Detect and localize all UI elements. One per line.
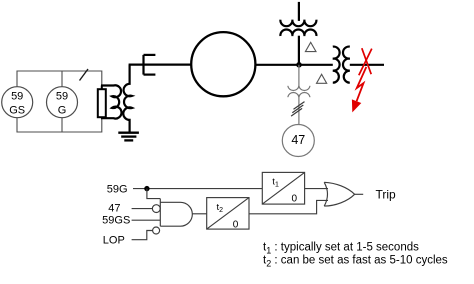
relay 59GS <box>2 87 33 118</box>
VT lead from node <box>298 65 300 89</box>
inversion bubble LOP <box>153 227 160 234</box>
machine terminal marker <box>144 55 156 75</box>
three-phase slash marks on VT lead <box>291 102 304 117</box>
ground <box>118 133 139 141</box>
wire 59G branch to AND <box>147 189 160 199</box>
wire generator terminal bus <box>255 64 332 66</box>
timer t2 box <box>207 198 249 230</box>
svg-text:0: 0 <box>292 194 298 205</box>
svg-text:G: G <box>58 104 67 116</box>
grounding transformer secondary winding <box>101 85 122 118</box>
svg-text:t2 : can be set as fast as 5-1: t2 : can be set as fast as 5-10 cycles <box>263 255 448 269</box>
fault lightning arrow <box>352 67 366 112</box>
node junction <box>296 62 302 68</box>
VT secondary lead <box>298 95 300 125</box>
generator G <box>191 32 255 96</box>
station aux transformer upper lead <box>298 2 300 21</box>
svg-text:t1 : typically set at 1-5 seco: t1 : typically set at 1-5 seconds <box>263 242 419 256</box>
resistor R (grounding resistor) <box>98 86 106 119</box>
station aux transformer LV winding <box>280 29 316 36</box>
svg-text:59: 59 <box>56 90 68 102</box>
grounding transformer primary winding <box>123 65 132 132</box>
wire t2 to OR <box>249 200 328 213</box>
svg-text:t2: t2 <box>217 202 224 214</box>
VT primary winding <box>288 86 310 91</box>
VT secondary winding <box>288 92 310 97</box>
svg-text:GS: GS <box>9 104 25 116</box>
wire riser to station transformer <box>298 36 300 65</box>
relay box <box>17 71 102 132</box>
slash on relay box top wire <box>80 69 89 81</box>
svg-text:47: 47 <box>108 203 120 215</box>
inversion bubble 47 <box>152 205 160 213</box>
wire HV side <box>350 64 384 66</box>
junction dot 59G <box>144 186 149 191</box>
svg-text:Trip: Trip <box>376 188 397 202</box>
svg-text:59G: 59G <box>107 184 128 196</box>
svg-text:LOP: LOP <box>103 234 125 246</box>
station aux transformer HV winding <box>280 20 316 27</box>
wire Trip output <box>355 193 364 195</box>
AND gate <box>160 199 192 227</box>
wire 47 input <box>132 208 153 210</box>
fault X mark <box>359 48 372 75</box>
GSU transformer HV winding <box>343 47 350 83</box>
svg-text:59: 59 <box>11 90 23 102</box>
delta winding symbol upper <box>305 42 316 51</box>
svg-text:59GS: 59GS <box>102 215 130 227</box>
wire generator neutral <box>129 63 192 65</box>
svg-text:0: 0 <box>233 219 239 230</box>
relay 47 <box>282 125 314 157</box>
svg-text:47: 47 <box>291 133 305 147</box>
wire LOP input <box>132 231 153 240</box>
OR gate <box>324 182 354 206</box>
wire t1 to OR <box>305 188 328 190</box>
wire AND to t2 <box>192 213 206 215</box>
wire 59GS input <box>132 219 161 221</box>
delta winding symbol lower <box>317 74 327 83</box>
timer t1 box <box>262 172 304 204</box>
GSU transformer LV winding <box>333 47 340 83</box>
svg-text:t1: t1 <box>272 176 279 188</box>
relay 59G <box>47 87 78 118</box>
wire 59G to t1 <box>133 188 262 190</box>
